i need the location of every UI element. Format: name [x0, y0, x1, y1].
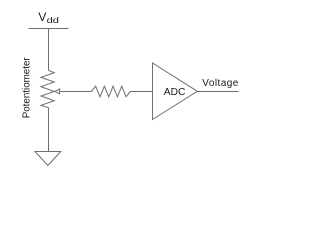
wire Vdd to potentiometer top: [48, 29, 50, 71]
ground symbol: [35, 152, 61, 166]
wire potentiometer bottom to ground: [48, 108, 50, 152]
svg-text:ADC: ADC: [164, 87, 186, 98]
resistor R2 zigzag: [91, 86, 130, 97]
potentiometer wiper arrowhead: [55, 89, 60, 94]
wire ADC output: [197, 91, 238, 93]
wire wiper to resistor R2: [60, 91, 92, 93]
potentiometer R1 zigzag body: [41, 70, 54, 107]
svg-text:Voltage: Voltage: [202, 78, 239, 89]
wire resistor to ADC input: [130, 91, 152, 93]
svg-text:dd: dd: [47, 15, 60, 25]
op-amp U1 ADC triangle: [153, 63, 198, 120]
power rail Vdd bar: [29, 28, 69, 30]
svg-text:Potentiometer: Potentiometer: [22, 57, 33, 119]
